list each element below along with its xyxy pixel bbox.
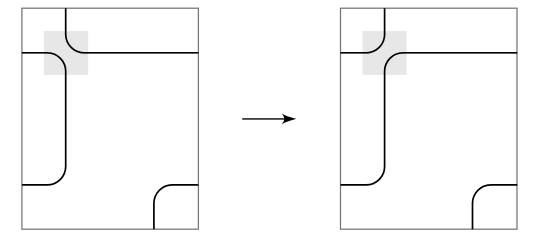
- left strand: left edge down and back to left edge: [22, 53, 66, 185]
- left strand: top edge to right edge (smoothing arc): [66, 8, 199, 53]
- left strand: bottom edge to right edge corner arc: [154, 185, 199, 229]
- right strand: top edge to left edge (smoothing arc): [341, 8, 385, 53]
- right strand: right edge down and to left edge: [341, 53, 518, 185]
- left shaded crossing region: [44, 31, 88, 75]
- right shaded crossing region: [363, 31, 407, 75]
- right diagram frame: [341, 8, 518, 229]
- arrow shaft: [242, 118, 288, 120]
- right strand: bottom edge to right edge corner arc: [473, 185, 518, 229]
- left diagram frame: [22, 8, 199, 229]
- arrow head: [282, 114, 297, 124]
